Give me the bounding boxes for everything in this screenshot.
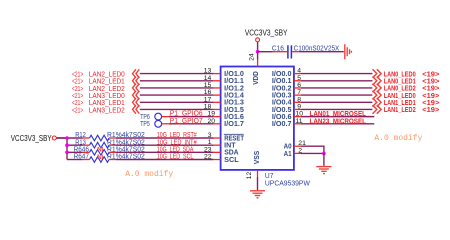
svg-text:I/O1.3: I/O1.3 bbox=[224, 100, 244, 107]
wire net 10G_LED_RST# bbox=[116, 137, 214, 139]
wire power to bus bbox=[57, 137, 68, 139]
wire junction to C16 bbox=[258, 51, 273, 53]
junction VDD / C16 bbox=[256, 50, 260, 54]
svg-text:R13: R13 bbox=[75, 139, 86, 146]
wire net 10G_LED_SCL bbox=[116, 159, 214, 161]
svg-text:VCC3V3_SBY: VCC3V3_SBY bbox=[245, 27, 288, 37]
svg-text:14: 14 bbox=[204, 75, 212, 82]
pin 18 stub bbox=[214, 108, 221, 110]
svg-text:12: 12 bbox=[246, 172, 253, 180]
svg-text:A.0 modify: A.0 modify bbox=[125, 170, 173, 179]
pin 16 stub bbox=[214, 94, 221, 96]
svg-text:I/O1.6: I/O1.6 bbox=[224, 114, 244, 121]
wire VCC to R12 bbox=[57, 137, 83, 139]
svg-text:LAN3_LED2: LAN3_LED2 bbox=[89, 105, 125, 114]
off-page connector LAN0_LED0 <19> bbox=[373, 69, 377, 78]
svg-text:10G_LED_INT#: 10G_LED_INT# bbox=[157, 139, 197, 146]
R647 right pin stub bbox=[109, 159, 116, 161]
off-page connector LAN0_LED1 <19> bbox=[373, 77, 377, 86]
wire pin 6 to LAN0_LED2 bbox=[301, 87, 373, 89]
R647 left pin stub bbox=[83, 159, 90, 161]
junction on power bus row 1 bbox=[65, 136, 69, 140]
svg-text:23: 23 bbox=[204, 146, 212, 153]
resistor R13 R1%4k7S02 bbox=[90, 142, 110, 148]
svg-text:VDD: VDD bbox=[253, 71, 260, 85]
wire net 10G_LED_SDA bbox=[116, 151, 214, 153]
svg-text:13: 13 bbox=[204, 68, 212, 75]
pin 4 stub bbox=[294, 73, 301, 75]
pin stub of TP6 bbox=[162, 116, 169, 118]
pin 11 stub bbox=[294, 123, 301, 125]
off-page connector LAN3_LED0 bbox=[133, 91, 136, 100]
wire VCC to R646 bbox=[67, 151, 83, 153]
pin name RESET (active low, overline) bbox=[224, 133, 244, 135]
test point TP5 bbox=[155, 120, 162, 127]
svg-text:<19>: <19> bbox=[422, 105, 440, 114]
svg-text:7: 7 bbox=[297, 89, 301, 96]
svg-text:VSS: VSS bbox=[254, 150, 261, 164]
wire pin 4 to LAN0_LED0 bbox=[301, 73, 373, 75]
wire VCC to R13 bbox=[67, 144, 83, 146]
wire pin 8 to LAN1_LED1 bbox=[301, 101, 373, 103]
wire LAN3_LED2 to pin 18 bbox=[140, 108, 214, 110]
wire LAN2_LED0 to pin 13 bbox=[140, 73, 214, 75]
pin 7 stub bbox=[294, 94, 301, 96]
wire power down to VDD bbox=[257, 42, 259, 60]
capacitor C16 C100nS02V25X bbox=[287, 45, 289, 58]
ground below VSS bbox=[250, 191, 265, 198]
pin 9 stub bbox=[294, 108, 301, 110]
R12 right pin stub bbox=[109, 137, 116, 139]
junction A0/A1 bbox=[322, 152, 326, 156]
junction on power bus row 2 bbox=[65, 143, 69, 147]
svg-text:I/O1.5: I/O1.5 bbox=[224, 107, 244, 114]
C16 left pin stub bbox=[273, 51, 288, 53]
wire to ground bbox=[323, 153, 325, 165]
pin 10 stub bbox=[294, 116, 301, 118]
svg-text:I/O0.4: I/O0.4 bbox=[272, 100, 292, 107]
wire LAN2_LED2 to pin 15 bbox=[140, 87, 214, 89]
svg-text:NI: NI bbox=[97, 155, 103, 161]
pin 12 stub (VSS) bbox=[257, 170, 259, 177]
svg-text:C16: C16 bbox=[272, 46, 284, 53]
svg-text:15: 15 bbox=[204, 82, 212, 89]
svg-text:R647: R647 bbox=[74, 154, 89, 161]
ground right of C16 (rotated) bbox=[345, 44, 352, 59]
wire C16 to ground bbox=[299, 51, 344, 53]
svg-text:<21>: <21> bbox=[72, 105, 83, 114]
pin 6 stub bbox=[294, 87, 301, 89]
wire VCC to R647 bbox=[67, 159, 83, 161]
pin 3 stub bbox=[214, 137, 221, 139]
junction on power bus row 3 bbox=[65, 151, 69, 155]
svg-text:17: 17 bbox=[204, 96, 212, 103]
svg-text:I/O1.7: I/O1.7 bbox=[224, 121, 244, 128]
svg-text:22: 22 bbox=[204, 154, 212, 161]
wire pin 5 to LAN0_LED1 bbox=[301, 80, 373, 82]
wire net 10G_LED_INT# bbox=[116, 144, 214, 146]
R13 left pin stub bbox=[83, 144, 90, 146]
wire net LAN01_MICROSEL bbox=[301, 116, 374, 118]
power symbol VCC3V3_SBY (left) bbox=[52, 136, 56, 140]
off-page connector LAN2_LED2 bbox=[133, 84, 136, 93]
svg-text:SDA: SDA bbox=[224, 150, 238, 157]
pin 1 stub bbox=[214, 144, 221, 146]
svg-text:P1_GPIO7: P1_GPIO7 bbox=[170, 116, 203, 125]
ground below A0/A1 bbox=[316, 167, 331, 174]
svg-text:3: 3 bbox=[208, 132, 212, 139]
svg-text:10G_LED_RST#: 10G_LED_RST# bbox=[157, 132, 197, 139]
svg-text:19: 19 bbox=[207, 111, 215, 118]
svg-text:10: 10 bbox=[296, 111, 304, 118]
svg-text:6: 6 bbox=[297, 82, 301, 89]
svg-text:I/O0.0: I/O0.0 bbox=[272, 71, 292, 78]
svg-text:R646: R646 bbox=[74, 146, 89, 153]
svg-text:10G_LED_SCL: 10G_LED_SCL bbox=[157, 154, 194, 161]
wire LAN3_LED0 to pin 16 bbox=[140, 94, 214, 96]
svg-text:I/O0.2: I/O0.2 bbox=[272, 85, 292, 92]
svg-text:TP5: TP5 bbox=[140, 121, 150, 128]
svg-text:I/O1.0: I/O1.0 bbox=[224, 71, 244, 78]
wire pin 9 to LAN1_LED2 bbox=[301, 108, 373, 110]
wire A0 bbox=[301, 145, 324, 147]
svg-text:UPCA9539PW: UPCA9539PW bbox=[265, 179, 310, 188]
pin 2 stub bbox=[294, 152, 301, 154]
svg-text:LAN23_MICROSEL: LAN23_MICROSEL bbox=[310, 116, 367, 125]
pin 20 stub bbox=[214, 123, 221, 125]
svg-text:I/O1.4: I/O1.4 bbox=[224, 93, 244, 100]
pin 23 stub bbox=[214, 151, 221, 153]
svg-text:9: 9 bbox=[297, 103, 301, 110]
resistor R12 R1%4k7S02 bbox=[90, 135, 110, 141]
svg-text:4: 4 bbox=[297, 68, 301, 75]
pin 24 stub (VDD) bbox=[257, 60, 259, 67]
svg-text:20: 20 bbox=[207, 118, 215, 125]
off-page connector LAN3_LED1 bbox=[133, 98, 136, 107]
wire A1 bbox=[301, 152, 324, 154]
svg-text:I/O0.1: I/O0.1 bbox=[272, 78, 292, 85]
svg-text:LAN1_LED2: LAN1_LED2 bbox=[384, 105, 416, 114]
svg-text:I/O1.1: I/O1.1 bbox=[224, 78, 244, 85]
pin 22 stub bbox=[214, 159, 221, 161]
svg-text:A.0 modify: A.0 modify bbox=[374, 134, 422, 143]
svg-text:TP6: TP6 bbox=[140, 114, 150, 121]
svg-text:SCL: SCL bbox=[224, 157, 239, 164]
svg-text:16: 16 bbox=[204, 89, 212, 96]
pin 15 stub bbox=[214, 87, 221, 89]
svg-text:I/O0.3: I/O0.3 bbox=[272, 93, 292, 100]
wire pin 7 to LAN1_LED0 bbox=[301, 94, 373, 96]
svg-text:5: 5 bbox=[297, 75, 301, 82]
off-page connector LAN0_LED2 <19> bbox=[373, 84, 377, 93]
off-page connector LAN1_LED1 <19> bbox=[373, 98, 377, 107]
wire A0 down to A1 bbox=[323, 146, 325, 154]
pin 19 stub bbox=[214, 116, 221, 118]
wire net LAN23_MICROSEL bbox=[301, 123, 374, 125]
svg-text:NI: NI bbox=[97, 148, 103, 154]
R12 left pin stub bbox=[83, 137, 90, 139]
R13 right pin stub bbox=[109, 144, 116, 146]
pin 13 stub bbox=[214, 73, 221, 75]
svg-text:RESET: RESET bbox=[224, 135, 244, 142]
svg-text:R12: R12 bbox=[75, 132, 86, 139]
off-page connector LAN2_LED1 bbox=[133, 77, 136, 86]
svg-text:I/O1.2: I/O1.2 bbox=[224, 85, 244, 92]
off-page connector LAN2_LED0 bbox=[133, 69, 136, 78]
wire VSS to ground bbox=[257, 177, 259, 190]
off-page connector LAN1_LED2 <19> bbox=[373, 105, 377, 114]
svg-text:A1: A1 bbox=[284, 151, 292, 158]
svg-text:8: 8 bbox=[297, 96, 301, 103]
power symbol VCC3V3_SBY (top) bbox=[256, 38, 260, 42]
pin stub of TP5 bbox=[162, 123, 169, 125]
wire net P1_GPIO7 bbox=[169, 123, 214, 125]
off-page connector LAN3_LED2 bbox=[133, 105, 136, 114]
svg-text:INT: INT bbox=[224, 143, 236, 150]
pin 17 stub bbox=[214, 101, 221, 103]
off-page connector LAN1_LED0 <19> bbox=[373, 91, 377, 100]
svg-text:18: 18 bbox=[204, 103, 212, 110]
IC U7 UPCA9539PW (I/O expander) body bbox=[221, 67, 294, 170]
svg-text:I/O0.7: I/O0.7 bbox=[272, 121, 292, 128]
R646 right pin stub bbox=[109, 151, 116, 153]
resistor R647 R1%4k7S02 bbox=[90, 157, 110, 163]
pin 14 stub bbox=[214, 80, 221, 82]
wire LAN3_LED1 to pin 17 bbox=[140, 101, 214, 103]
pin 5 stub bbox=[294, 80, 301, 82]
pin 8 stub bbox=[294, 101, 301, 103]
svg-text:1: 1 bbox=[208, 139, 212, 146]
R646 left pin stub bbox=[83, 151, 90, 153]
wire LAN2_LED1 to pin 14 bbox=[140, 80, 214, 82]
resistor R646 R1%4k7S02 bbox=[90, 150, 110, 156]
svg-text:VCC3V3_SBY: VCC3V3_SBY bbox=[11, 133, 52, 143]
pin 21 stub bbox=[294, 145, 301, 147]
C16 right pin stub bbox=[292, 51, 299, 53]
svg-text:I/O0.5: I/O0.5 bbox=[272, 107, 292, 114]
svg-text:A0: A0 bbox=[284, 144, 292, 151]
svg-text:24: 24 bbox=[249, 53, 256, 61]
test point TP6 bbox=[155, 113, 162, 120]
vertical power bus bbox=[66, 138, 68, 160]
wire net P1_GPIO6 bbox=[169, 116, 214, 118]
svg-text:11: 11 bbox=[296, 118, 303, 125]
svg-text:10G_LED_SDA: 10G_LED_SDA bbox=[157, 147, 194, 154]
svg-text:I/O0.6: I/O0.6 bbox=[272, 114, 292, 121]
